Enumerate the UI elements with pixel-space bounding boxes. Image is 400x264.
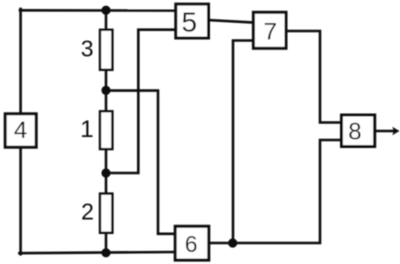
block 6 xyxy=(175,226,209,260)
wire block 5 output to block 7 upper input xyxy=(208,20,253,23)
wire block 6 output through node E to block 8 lower input xyxy=(208,140,341,243)
svg-text:1: 1 xyxy=(80,116,94,143)
resistor 2 xyxy=(100,194,112,233)
output arrowhead xyxy=(392,127,399,136)
wire block 8 output arrow line xyxy=(375,130,395,133)
node D junction dot xyxy=(101,248,110,257)
block 5 xyxy=(176,4,209,38)
svg-text:2: 2 xyxy=(81,199,94,225)
resistor 3 xyxy=(100,30,112,70)
wire block 7 lower input down to node E xyxy=(233,41,253,244)
svg-text:3: 3 xyxy=(81,36,94,62)
svg-text:4: 4 xyxy=(14,117,27,144)
block 8 xyxy=(342,115,375,147)
svg-text:6: 6 xyxy=(185,231,198,257)
node B junction dot xyxy=(101,86,110,95)
node E junction dot xyxy=(228,238,237,247)
block 7 xyxy=(253,12,286,48)
svg-text:5: 5 xyxy=(182,7,198,38)
wire resistor 2 bottom to node D xyxy=(105,233,108,253)
node A junction dot xyxy=(101,6,110,15)
wire resistor 1 bottom to node C and resistor 2 top xyxy=(105,149,108,194)
wire node B branch to block 6 input xyxy=(106,91,175,234)
wire node C branch up to block 5 lower input xyxy=(106,30,175,173)
wire node A to resistor 3 top xyxy=(105,10,108,30)
svg-text:7: 7 xyxy=(263,19,277,46)
svg-text:8: 8 xyxy=(348,118,361,145)
wire left vertical lower (block 4 to bottom bus) xyxy=(19,147,22,254)
wire top bus from left corner to block 5 xyxy=(20,9,175,12)
resistor 1 xyxy=(100,111,112,149)
wire bottom bus from left corner to block 6 xyxy=(19,252,175,253)
wire left vertical upper (top bus to block 4) xyxy=(19,9,22,113)
wire resistor 3 bottom to node B xyxy=(105,70,108,112)
block 4 xyxy=(5,114,36,147)
wire block 7 output to block 8 upper input xyxy=(287,31,341,123)
node C junction dot xyxy=(101,168,110,177)
